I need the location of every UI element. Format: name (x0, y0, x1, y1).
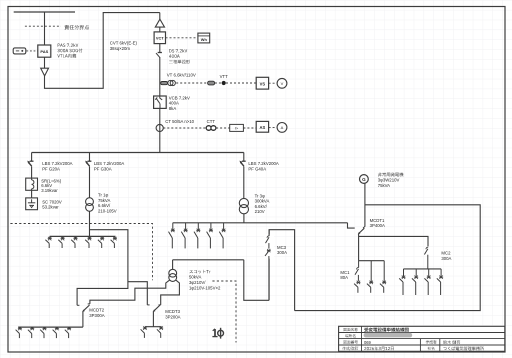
wire Tr3 secondary (243, 214, 245, 223)
wire dashed VT chain (176, 82, 207, 84)
svg-text:PF G20A: PF G20A (42, 167, 60, 172)
breaker MC1 feeder 2 (370, 261, 372, 283)
breaker 210V feeder 5 (223, 223, 225, 230)
VT 6.6kV/110V (161, 82, 168, 85)
svg-text:8kA: 8kA (169, 106, 177, 111)
svg-text:MC2: MC2 (441, 251, 451, 256)
breaker MCDT2 feeder 5 (68, 327, 70, 328)
bus 1ph low voltage (50, 235, 116, 237)
wire generator loop bottom (295, 205, 481, 311)
wire branch3 (243, 153, 245, 162)
wire to arrester (159, 13, 161, 20)
svg-text:3P400A: 3P400A (370, 223, 385, 228)
svg-text:80A: 80A (340, 275, 348, 280)
breaker VCB (154, 96, 167, 108)
transfer switch MCDT1 (348, 223, 355, 228)
bus MC1 (359, 260, 385, 262)
svg-text:LBS 7.2kV200A: LBS 7.2kV200A (42, 161, 72, 166)
disconnect switch DS (158, 52, 162, 54)
wire dashed VCT-Wh (166, 37, 198, 39)
meter Wh (198, 33, 210, 43)
svg-text:3φ210V/: 3φ210V/ (189, 280, 206, 285)
wire drop to PAS (44, 12, 46, 45)
svg-text:MCDT2: MCDT2 (89, 308, 104, 313)
breaker MCDT2 feeder 3 (44, 327, 46, 328)
svg-text:PF G30A: PF G30A (94, 167, 112, 172)
node boundary dashed 1ph zone (212, 281, 236, 343)
breaker 210V feeder 1 (172, 223, 174, 230)
contactor MC2 (426, 247, 428, 249)
svg-text:VTT: VTT (220, 74, 228, 79)
breaker 1ph feeder 4 (89, 236, 91, 238)
breaker MC2 feeder 4 (440, 269, 442, 277)
wire A commercial to MCDT3 (128, 282, 147, 305)
svg-text:CT 50/5A n>10: CT 50/5A n>10 (165, 119, 194, 124)
selector AS (256, 121, 268, 132)
label 1-phase zone (214, 329, 216, 337)
CT current transformer (156, 124, 163, 131)
wire branch2 (89, 153, 91, 162)
reactor SR (26, 178, 38, 190)
arrester LA triangle (155, 19, 164, 27)
breaker MC2 feeder 3 (428, 269, 430, 277)
wire SR-SC (31, 190, 33, 198)
wire generator down (364, 183, 366, 226)
wire VCB to bus (159, 108, 161, 152)
wire MCDT1 to MC2 (359, 236, 428, 246)
switch LBS2 (88, 160, 92, 162)
svg-text:MC1: MC1 (340, 270, 350, 275)
wire utility top line (14, 11, 75, 13)
wire dashed CT chain (163, 127, 206, 129)
switch LBS1 (30, 160, 34, 162)
breaker MCDT2 feeder 4 (56, 327, 58, 328)
node demarcation dashed line (25, 25, 61, 27)
breaker 1ph feeder 5 (101, 236, 103, 238)
breaker 210V feeder 2 (185, 223, 187, 230)
terminal CTT capsules (206, 126, 211, 131)
node boundary dashed line (10, 224, 152, 281)
svg-text:VT 6.6kV/110V: VT 6.6kV/110V (167, 73, 196, 78)
breaker 1ph feeder 2 (62, 236, 64, 238)
label site redacted (364, 333, 413, 338)
wire MC3 leg (269, 230, 295, 311)
breaker MC1 feeder 3 (383, 261, 385, 283)
wire cable run (45, 13, 160, 89)
svg-text:MCDT1: MCDT1 (370, 218, 385, 223)
breaker MCDT3 feeder 1 (144, 327, 146, 328)
svg-text:3P300A: 3P300A (89, 313, 104, 318)
transformer Tr3 three phase (239, 198, 248, 207)
capacitor SC (26, 198, 38, 210)
breaker 210V feeder 4 (210, 223, 212, 230)
breaker 210V feeder 3 (197, 223, 199, 230)
svg-text:Wh: Wh (201, 37, 208, 42)
svg-text:CTT: CTT (207, 119, 216, 124)
transformer scott Tr (172, 260, 174, 270)
wire 1ph feeder to MCDT (77, 230, 128, 306)
breaker MCDT2 feeder 2 (31, 327, 33, 328)
svg-text:3P200A: 3P200A (165, 315, 180, 320)
svg-text:PF G40A: PF G40A (248, 167, 266, 172)
bus MC2 (404, 268, 442, 270)
breaker 1ph feeder 3 (75, 236, 77, 238)
svg-text:210V: 210V (255, 209, 265, 214)
metering VCT (154, 32, 165, 44)
breaker MCDT3 feeder 2 (160, 327, 162, 328)
bus 210V (173, 222, 348, 224)
SOG control box (13, 48, 26, 54)
svg-text:CVT 6kV(E-E): CVT 6kV(E-E) (110, 40, 138, 45)
transfer switch MCDT2 (83, 305, 90, 311)
label author (443, 340, 460, 344)
svg-text:38sq×20m: 38sq×20m (110, 46, 131, 51)
svg-text:1φ210V-105V×2: 1φ210V-105V×2 (189, 286, 221, 291)
svg-text:75kVA: 75kVA (378, 183, 390, 188)
meter A ammeter (277, 123, 287, 133)
svg-text:210-105V: 210-105V (98, 208, 117, 213)
breaker 1ph feeder 1 (49, 236, 51, 238)
label drawing title (364, 328, 409, 332)
bus MCDT3 output (145, 326, 162, 328)
cable head triangle (41, 68, 49, 76)
svg-text:VCB 7.2kV: VCB 7.2kV (169, 95, 190, 100)
transformer Tr1 single phase (86, 198, 94, 206)
terminal VTT capsule (208, 81, 215, 85)
wire PAS down (44, 57, 46, 68)
svg-text:VCT: VCT (156, 36, 164, 41)
contactor MC1 (358, 261, 360, 268)
breaker MC1 feeder 1 (357, 281, 359, 284)
svg-text:50kVA: 50kVA (189, 275, 201, 280)
transfer switch MCDT3 (154, 305, 161, 311)
svg-text:3.19kvar: 3.19kvar (41, 188, 58, 193)
contactor MC3 (264, 234, 274, 258)
wire dashed control to PAS (26, 50, 37, 52)
wire DS to VCB (159, 57, 161, 96)
label sekinin-bunkaiten (65, 25, 90, 30)
generator G (360, 175, 369, 184)
breaker MCDT2 feeder 1 (19, 327, 21, 328)
label date (364, 347, 394, 351)
svg-text:53.2kvar: 53.2kvar (42, 205, 59, 210)
bus MCDT2 output (18, 326, 83, 328)
wire scott primary (173, 259, 244, 261)
svg-text:LBS 7.2kV200A: LBS 7.2kV200A (94, 161, 124, 166)
selector VS (256, 77, 268, 89)
svg-text:AS: AS (260, 125, 266, 130)
svg-text:LBS 7.2kV200A: LBS 7.2kV200A (248, 161, 278, 166)
breaker MC2 feeder 1 (403, 269, 405, 277)
wire Tr1 secondary (89, 211, 91, 236)
label company (443, 347, 484, 351)
meter V voltmeter (277, 78, 287, 88)
wire scott left secondary (90, 280, 170, 304)
svg-text:MCDT3: MCDT3 (165, 309, 180, 314)
wire VCT to DS (159, 44, 161, 53)
switch LBS3 (242, 160, 246, 162)
svg-text:G: G (362, 177, 366, 182)
wire branch1 (31, 153, 33, 162)
wire scott right secondary (161, 280, 180, 305)
svg-text:3φ3W210V: 3φ3W210V (378, 178, 400, 183)
svg-text:PAS: PAS (40, 49, 48, 54)
bus 6.6kV main (32, 152, 244, 154)
node VTT dot (222, 81, 226, 85)
title block table (339, 326, 505, 351)
svg-text:300A: 300A (277, 250, 287, 255)
switch PAS (38, 45, 51, 57)
relay OCR I> (230, 124, 244, 131)
svg-text:V: V (281, 81, 284, 86)
svg-text:300A: 300A (441, 256, 451, 261)
breaker MC2 feeder 2 (415, 269, 417, 277)
svg-text:400A: 400A (169, 101, 179, 106)
svg-text:A: A (281, 125, 284, 130)
breaker 1ph feeder 6 (114, 236, 116, 238)
svg-text:VS: VS (260, 81, 266, 86)
svg-text:069: 069 (364, 340, 372, 345)
